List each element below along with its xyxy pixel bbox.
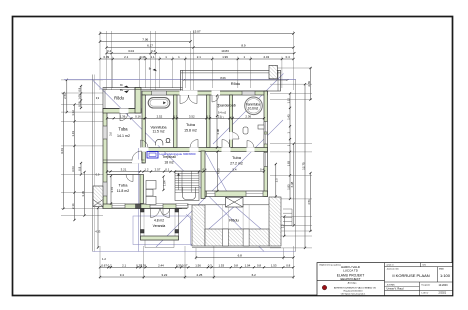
interior vdim stairs 1.04 (163, 177, 165, 191)
interior wall Vannituba/Tuba15.8 (174, 95, 178, 148)
svg-text:Joonise nimi: Joonise nimi (387, 269, 400, 271)
svg-text:Vannituba: Vannituba (151, 125, 167, 129)
bottom small dimension row (100, 266, 293, 268)
right dimension column 6.38 (293, 144, 295, 226)
right dimension column 4.51 (310, 173, 312, 231)
roof west edge double line (92, 75, 94, 252)
roof vertical blue line west (138, 148, 140, 252)
svg-text:1.36: 1.36 (120, 114, 126, 118)
svg-text:Urmas V. Raud: Urmas V. Raud (387, 288, 404, 291)
svg-text:3.04: 3.04 (128, 49, 134, 53)
interior wall Tuba11.8 east (140, 175, 144, 204)
svg-text:1.83: 1.83 (286, 184, 290, 190)
svg-text:0.1: 0.1 (230, 117, 234, 120)
svg-text:0.4: 0.4 (260, 168, 264, 172)
interior wall Tuba11.8 north (107, 174, 140, 176)
door opening Garderoob north (212, 91, 221, 96)
svg-text:Kuupäev: Kuupäev (422, 284, 432, 286)
svg-text:Tuba: Tuba (186, 122, 196, 127)
left col split (317, 280, 385, 282)
svg-text:0,9: 0,9 (96, 173, 100, 177)
door Tuba14.1 (132, 160, 142, 164)
balcony east wall (135, 88, 141, 114)
veranda roof diagonal (186, 214, 208, 236)
window Tuba27 south bay (207, 191, 216, 197)
bottom extension lines (99, 246, 101, 279)
south wall posts dark (136, 204, 142, 209)
title block divider main (384, 263, 386, 296)
svg-text:6.8: 6.8 (238, 254, 243, 258)
porch steps right (283, 208, 292, 210)
svg-text:6.2: 6.2 (252, 273, 257, 277)
svg-text:2.14: 2.14 (71, 203, 75, 209)
svg-text:2.69: 2.69 (307, 81, 311, 87)
chimney top-right hatched (269, 65, 277, 79)
interior wall Vannituba west (142, 95, 145, 163)
svg-text:2.51: 2.51 (63, 93, 67, 99)
right dimension column 1.5 porch (283, 217, 285, 237)
svg-text:0.4: 0.4 (107, 49, 112, 53)
svg-text:10.83: 10.83 (221, 49, 229, 53)
veranda outline (141, 209, 179, 241)
toilet right bath (243, 127, 248, 134)
svg-text:2.57: 2.57 (155, 168, 161, 172)
roof south edge (93, 251, 296, 253)
toilet Vannituba (156, 139, 163, 145)
svg-text:15.8 m2: 15.8 m2 (184, 128, 197, 132)
svg-text:18 m2: 18 m2 (164, 160, 173, 164)
svg-text:0.1: 0.1 (173, 114, 177, 118)
svg-text:9.4 m2: 9.4 m2 (218, 111, 227, 115)
svg-text:Veranda: Veranda (153, 224, 166, 228)
svg-text:0.46: 0.46 (140, 55, 146, 59)
svg-text:LUCCA TD: LUCCA TD (343, 268, 359, 272)
svg-text:1.53: 1.53 (218, 263, 224, 267)
svg-text:OÜ Tipton mere-maandu 1: OÜ Tipton mere-maandu 1 (341, 292, 366, 295)
top dimension row 7.06 (100, 41, 191, 43)
svg-text:3.21: 3.21 (121, 168, 127, 172)
svg-text:1.04: 1.04 (245, 263, 251, 267)
svg-text:3.22: 3.22 (161, 273, 167, 277)
door opening Tuba15.8 south (190, 147, 199, 152)
left dimension column 3.39 (84, 172, 86, 216)
svg-text:0.4: 0.4 (286, 55, 290, 59)
svg-text:8.06: 8.06 (220, 76, 226, 80)
interior dim row y171 (107, 171, 264, 173)
door Garderoob south (222, 147, 231, 152)
left extension lines (61, 79, 103, 81)
svg-text:JOONIS: JOONIS (387, 285, 396, 287)
svg-text:11.5 m2: 11.5 m2 (153, 130, 165, 134)
right extension lines (270, 67, 312, 69)
top-right balcony interior dim 8.06 (184, 79, 288, 81)
interior vdim x111 (110, 176, 112, 204)
porch right hatched pier (269, 197, 281, 246)
top dimension row 0.4 3.04 0.4 10.83 (107, 52, 295, 54)
svg-text:4.93: 4.93 (216, 168, 220, 174)
left dimension column 2 (74, 105, 76, 221)
svg-text:27.2 m2: 27.2 m2 (230, 161, 243, 165)
interior wall south of top rooms (141, 148, 268, 152)
svg-text:0.28: 0.28 (77, 101, 81, 107)
veranda south band (141, 236, 179, 240)
svg-text:2.25: 2.25 (197, 273, 203, 277)
svg-text:6.17: 6.17 (147, 44, 153, 48)
svg-text:Rõdu: Rõdu (114, 95, 124, 100)
svg-text:0.67: 0.67 (101, 263, 107, 267)
svg-text:2.52: 2.52 (157, 114, 163, 118)
svg-text:amet nr: amet nr (387, 264, 394, 267)
door Vannituba-right south (247, 141, 254, 148)
svg-text:2.1: 2.1 (124, 55, 128, 59)
stair arrow (178, 175, 180, 191)
svg-text:1.09: 1.09 (77, 94, 81, 100)
svg-text:10.2003: 10.2003 (439, 284, 449, 287)
svg-text:1.56: 1.56 (195, 263, 201, 267)
svg-text:3.72: 3.72 (110, 187, 114, 193)
east wall (264, 91, 268, 197)
svg-text:2.36: 2.36 (245, 114, 251, 118)
door opening Vannituba south (140, 147, 149, 152)
svg-text:0.4: 0.4 (202, 168, 206, 172)
top dimension small row (100, 58, 294, 60)
window south wall 1 (112, 204, 125, 209)
north wall west wing (below balcony) (103, 109, 141, 114)
veranda roof rect (133, 216, 191, 245)
double door Tuba15.8 north (180, 95, 189, 104)
interior wall Tuba15.8/Garderoob (207, 95, 211, 148)
svg-text:Br: Br (120, 84, 123, 87)
svg-text:1:100: 1:100 (440, 273, 451, 278)
svg-text:11.8 m2: 11.8 m2 (117, 189, 129, 193)
roof north edge blue line (64, 79, 296, 81)
veranda double door (151, 209, 160, 218)
svg-text:0.39: 0.39 (140, 263, 146, 267)
svg-text:EELPROJEKT: EELPROJEKT (340, 277, 360, 281)
porch roof eave (191, 244, 280, 246)
svg-text:Tuba: Tuba (232, 155, 242, 160)
blue annotation luuk (147, 152, 158, 159)
right dimension column inner small (289, 94, 291, 199)
svg-text:Arendaja: Arendaja (348, 282, 358, 285)
left dimension column outer 9.01 (63, 93, 65, 209)
svg-text:Rõdu: Rõdu (229, 217, 239, 222)
left dimension column 2.51 (66, 80, 68, 112)
svg-text:II KORRUSE PLAAN: II KORRUSE PLAAN (392, 273, 429, 278)
svg-text:2.44: 2.44 (158, 263, 164, 267)
svg-text:0.4: 0.4 (151, 49, 156, 53)
right dimension column 12.75 (304, 84, 306, 248)
window west wall 2 (103, 182, 107, 196)
right col narrow top row (385, 266, 453, 268)
window west wall 1 (103, 126, 107, 139)
title block outer (317, 263, 453, 296)
svg-text:Ω: Ω (165, 138, 170, 145)
svg-text:Garderoob: Garderoob (218, 103, 236, 107)
window south wall 2 (150, 204, 163, 209)
right col rows (385, 281, 453, 283)
svg-text:2.5: 2.5 (275, 178, 279, 182)
staircase (175, 171, 199, 201)
door Garderoob north (212, 95, 219, 102)
north wall of main house (142, 91, 268, 95)
svg-text:3.39: 3.39 (81, 191, 85, 197)
window north wall 2 (242, 91, 255, 95)
svg-text:1.43: 1.43 (286, 114, 290, 120)
door right bath (233, 133, 240, 140)
svg-text:8.9: 8.9 (241, 44, 246, 48)
veranda inner lines (143, 209, 145, 241)
valley to porch apex (205, 152, 235, 207)
porch roof east edge blue (279, 206, 281, 245)
scale box (437, 267, 439, 282)
svg-text:12.75: 12.75 (301, 162, 305, 170)
roof diagonal B (156, 120, 283, 247)
south wall of Tuba 27.2 (205, 191, 268, 197)
svg-text:3.63: 3.63 (71, 166, 75, 172)
svg-text:0.8: 0.8 (234, 263, 238, 267)
svg-text:1.2: 1.2 (102, 257, 106, 261)
top-right balcony railing (181, 70, 281, 91)
svg-text:Leht nr: Leht nr (422, 291, 429, 294)
svg-text:9.01: 9.01 (60, 148, 64, 154)
svg-text:1.83: 1.83 (286, 161, 290, 167)
dim extension lines top (99, 31, 101, 90)
bottom dimension row 3.4 3.22 2.25 6.2 (100, 276, 294, 278)
svg-text:1.91: 1.91 (71, 130, 75, 136)
svg-text:0.1: 0.1 (165, 168, 169, 172)
svg-text:Tuba: Tuba (118, 126, 128, 131)
svg-text:1.2: 1.2 (144, 168, 148, 172)
bottom 6.8 dimension (196, 257, 294, 259)
svg-text:14.1 m2: 14.1 m2 (117, 134, 130, 138)
sink right bath (258, 125, 264, 129)
svg-text:0.8: 0.8 (257, 263, 261, 267)
porch posts in band (222, 229, 228, 246)
svg-text:2/2021: 2/2021 (439, 292, 447, 295)
svg-text:4.08: 4.08 (216, 129, 220, 135)
door veranda entry (163, 208, 170, 215)
south wall main (103, 204, 187, 209)
window east wall 2 (264, 153, 268, 167)
top dimension row 6.17 / 8.9 (107, 47, 294, 49)
porch post lines up (221, 205, 223, 229)
porch hatched parapet band (205, 229, 269, 246)
window east wall 1 (264, 122, 268, 133)
svg-text:Luuk pööningule 600X800: Luuk pööningule 600X800 (160, 152, 196, 156)
svg-text:1.12: 1.12 (286, 98, 290, 104)
top-left balcony railing (103, 88, 135, 109)
svg-text:0.1: 0.1 (206, 114, 210, 118)
svg-text:0.9: 0.9 (77, 87, 81, 91)
svg-text:1.99: 1.99 (222, 55, 228, 59)
door opening Tuba15.8 north (180, 91, 198, 96)
round tub (245, 97, 263, 115)
svg-text:3.52: 3.52 (189, 114, 195, 118)
svg-text:0.9: 0.9 (77, 166, 81, 170)
svg-text:2.1: 2.1 (197, 55, 201, 59)
svg-text:0.3: 0.3 (208, 263, 212, 267)
veranda steps below (144, 240, 146, 248)
svg-text:3,6: 3,6 (109, 132, 113, 136)
svg-text:2.43: 2.43 (263, 55, 269, 59)
svg-text:1.53: 1.53 (271, 263, 277, 267)
svg-text:4.33: 4.33 (95, 230, 101, 234)
door opening bath wall (229, 132, 233, 140)
svg-text:0.2: 0.2 (108, 263, 112, 267)
roof diagonal C (213, 74, 284, 145)
door opening Vannituba-right south (247, 147, 255, 152)
window Tuba27 south bay2 (246, 191, 263, 197)
window east wall 1b (264, 134, 268, 144)
window south wall 3 (176, 204, 188, 209)
chimney west hatched (93, 186, 103, 207)
roof diagonal A (93, 80, 264, 251)
interior vdim x272 (275, 164, 277, 197)
fireplace butterfly Tuba27 (226, 197, 244, 207)
interior dim row y118 (107, 117, 264, 119)
window north wall 1 (152, 91, 167, 95)
svg-text:5.4: 5.4 (232, 168, 236, 172)
railing band across north face (135, 87, 183, 89)
door Vannituba south (141, 140, 149, 148)
svg-text:0.16: 0.16 (135, 114, 141, 118)
porch roof hip right (235, 206, 280, 245)
top dimension row 15.07 (100, 33, 294, 35)
svg-text:1.1: 1.1 (151, 55, 155, 59)
left dimension column 0.9 low (80, 163, 82, 175)
svg-text:1.04: 1.04 (162, 180, 166, 186)
furniture stack (146, 181, 156, 190)
porch bottom edge (192, 247, 281, 249)
svg-text:6.38: 6.38 (290, 181, 294, 187)
svg-text:2.1: 2.1 (122, 263, 126, 267)
svg-text:1.32: 1.32 (71, 110, 75, 116)
svg-text:3.4: 3.4 (120, 273, 125, 277)
svg-text:leht: leht (423, 264, 427, 267)
svg-text:Mõõt: Mõõt (439, 268, 444, 271)
interior wall Trepihall/Tuba27.2 (201, 151, 205, 199)
svg-text:10,6m2: 10,6m2 (248, 107, 259, 111)
porch roof hip left (191, 206, 235, 245)
door Tuba11.8 (126, 175, 133, 182)
svg-text:Tuba: Tuba (119, 182, 129, 187)
svg-text:4.51: 4.51 (307, 199, 311, 205)
west wall (103, 109, 107, 209)
left bottom 4.33 dim (97, 208, 99, 248)
svg-text:0.8: 0.8 (286, 263, 290, 267)
stair landing curve (183, 187, 196, 200)
svg-text:4.8 m2: 4.8 m2 (154, 219, 164, 223)
left dimension column 3 micro (80, 86, 82, 108)
porch left hatched pier (192, 205, 205, 246)
interior vdim x217 (216, 96, 218, 148)
svg-text:Reg.kood 10101010: Reg.kood 10101010 (344, 291, 364, 293)
bathtub (148, 98, 170, 108)
svg-text:2.1: 2.1 (220, 117, 224, 120)
veranda posts (141, 209, 145, 213)
svg-text:7.06: 7.06 (142, 38, 148, 42)
svg-text:15.07: 15.07 (193, 30, 201, 34)
interior wall Garderoob/Vannituba right (230, 95, 233, 148)
svg-text:Br: Br (149, 67, 152, 70)
porch top edge (187, 204, 269, 206)
interior wall Tuba14.1 south (thin double) (103, 160, 145, 163)
svg-text:Objekti nimi ja aadress: Objekti nimi ja aadress (319, 263, 342, 266)
door opening balcony wall (120, 108, 129, 113)
svg-text:ARHITEKTUURIBÜROO VALDO BRAND: ARHITEKTUURIBÜROO VALDO BRAND OÜ (334, 287, 376, 290)
right dimension column 2.69 top (310, 68, 312, 100)
door Tuba15.8 south (190, 140, 198, 148)
roof east edge (295, 80, 297, 252)
svg-text:Rõdu: Rõdu (231, 81, 241, 86)
